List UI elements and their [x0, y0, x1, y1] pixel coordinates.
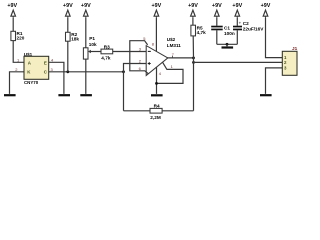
+9V supply symbol (R2 rail)	[63, 3, 73, 18]
junction R2/C-node	[66, 70, 69, 73]
svg-text:+9V: +9V	[81, 3, 91, 9]
svg-text:+9V: +9V	[152, 3, 162, 9]
balance strap wire pins 5-6	[130, 36, 149, 74]
svg-text:1: 1	[171, 64, 174, 69]
ground (J1 pin 3)	[260, 94, 272, 96]
pin 4 V- wire to ground	[157, 67, 162, 94]
wire node C: U1 pin 3 to R4/pin2 riser	[49, 71, 124, 73]
ground (C1/C2)	[222, 44, 234, 48]
+9V supply symbol (C1 rail)	[212, 3, 222, 18]
svg-text:P1: P1	[89, 36, 95, 41]
wire R2 to C-node	[67, 41, 69, 72]
resistor R4 2,2M	[150, 104, 162, 120]
wire J1 pin 3 to ground	[266, 68, 283, 94]
wire output to J1 pin 2	[194, 61, 283, 63]
junction output/R5 rail	[192, 57, 195, 60]
svg-text:LM311: LM311	[167, 43, 181, 48]
svg-text:+9V: +9V	[232, 3, 242, 9]
svg-text:2: 2	[139, 58, 142, 63]
junction C-node/riser	[122, 70, 125, 73]
svg-text:4: 4	[51, 57, 54, 62]
svg-text:8: 8	[152, 41, 155, 46]
ground (U1 emitter)	[58, 94, 70, 96]
svg-text:5: 5	[143, 36, 146, 41]
wire +9V to C2	[236, 18, 238, 26]
+9V supply symbol (C2 rail)	[232, 3, 242, 18]
svg-text:4: 4	[159, 71, 162, 76]
wire R3 to U2 pin 3	[113, 51, 147, 53]
ground (U2)	[151, 94, 163, 96]
wire U1 pin 4 (E) down to ground	[49, 62, 64, 94]
+9V supply symbol (R5 rail)	[188, 3, 198, 18]
svg-text:+9V: +9V	[212, 3, 222, 9]
resistor R1 220	[11, 31, 25, 40]
resistor R5 4,7k	[191, 25, 206, 36]
potentiometer P1 10k	[83, 36, 97, 59]
+9V supply symbol (J1 rail)	[261, 3, 271, 18]
svg-text:3: 3	[51, 67, 54, 72]
svg-text:7: 7	[172, 52, 175, 57]
svg-text:4,7k: 4,7k	[197, 30, 207, 35]
svg-text:+9V: +9V	[188, 3, 198, 9]
optocoupler U1 CNY70	[24, 52, 49, 85]
svg-text:22uF/16V: 22uF/16V	[243, 27, 264, 32]
svg-text:U$2: U$2	[167, 37, 176, 42]
wire +9V to C1	[216, 18, 218, 26]
wire +9V to R5	[192, 18, 194, 25]
svg-text:220: 220	[17, 35, 25, 40]
+9V supply symbol (U2 pin 8)	[152, 3, 162, 18]
svg-text:+: +	[239, 20, 242, 25]
junction cap ground row	[226, 43, 229, 46]
svg-text:J1: J1	[292, 46, 298, 51]
wire +9V to R2	[67, 18, 69, 33]
resistor R3 4,7k	[101, 45, 113, 61]
svg-text:R4: R4	[154, 104, 160, 109]
wire R4 to output rail	[162, 110, 193, 112]
svg-text:E: E	[44, 61, 47, 66]
wire C2 to ground row	[236, 30, 238, 44]
wire R1 to U1 pin 1	[13, 41, 24, 63]
connector J1	[282, 46, 297, 76]
svg-text:4,7k: 4,7k	[101, 55, 111, 60]
svg-text:18k: 18k	[71, 36, 79, 41]
wire +9V to R1	[12, 18, 14, 32]
svg-text:2: 2	[15, 67, 18, 72]
wire +9V to P1	[85, 18, 87, 48]
wire P1 bottom to ground	[85, 59, 87, 94]
+9V supply symbol (P1 rail)	[81, 3, 91, 18]
junction pin4/pin1	[155, 82, 158, 85]
comparator U2 LM311 triangle	[146, 37, 181, 75]
wire P1 wiper to R3	[90, 51, 101, 53]
svg-text:2,2M: 2,2M	[150, 115, 161, 120]
wire feedback riser to R4	[124, 110, 151, 112]
ground (P1)	[80, 94, 92, 96]
pin 8 V+ wire	[152, 18, 157, 52]
wire U1 pin 2 to ground	[10, 72, 25, 94]
svg-text:100n: 100n	[224, 31, 235, 36]
svg-text:+9V: +9V	[63, 3, 73, 9]
pin 1 GND wire	[157, 62, 184, 83]
wire R5 to output rail and down to R4	[192, 36, 194, 111]
wire U2 pin 2 (+IN) riser to R4	[124, 64, 147, 111]
svg-text:+9V: +9V	[261, 3, 271, 9]
svg-text:10k: 10k	[89, 42, 97, 47]
wire C1 to ground row	[216, 30, 218, 44]
pin 7 output wire	[167, 52, 194, 58]
+9V supply symbol (R1 rail)	[7, 3, 17, 18]
svg-text:+9V: +9V	[7, 3, 17, 9]
svg-text:C2: C2	[243, 21, 249, 26]
junction output/J1 wire	[192, 61, 195, 64]
capacitor C2 22uF/16V polarized	[233, 20, 264, 31]
svg-text:CNY70: CNY70	[24, 80, 39, 85]
svg-text:3: 3	[139, 46, 142, 51]
ground (U1 cathode)	[4, 94, 16, 96]
svg-text:C1: C1	[224, 26, 230, 31]
wire +9V to J1 pin 1	[266, 18, 283, 58]
resistor R2 18k	[66, 32, 80, 41]
capacitor C1 100n	[211, 26, 235, 37]
wire cap ground row	[217, 43, 238, 45]
svg-text:1: 1	[17, 57, 20, 62]
